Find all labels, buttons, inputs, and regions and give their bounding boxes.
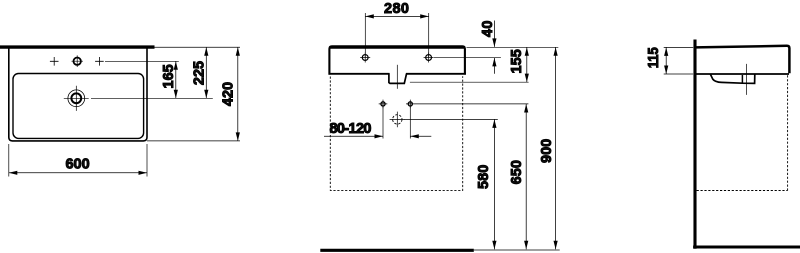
wire: 280 right extension down to faucet hole: [428, 13, 430, 58]
dimension 155: [509, 47, 529, 82]
fixing hole left: [379, 100, 388, 109]
dimension 650: [509, 104, 528, 249]
dimension 900: [539, 47, 558, 249]
wire: 115 bottom extension: [664, 73, 694, 75]
faucet hole (plan): [72, 55, 84, 67]
svg-text:900: 900: [539, 139, 555, 163]
centerline (side drain axis): [746, 64, 748, 95]
dimension 420: [220, 47, 240, 141]
centerline (front drain axis): [396, 65, 398, 89]
dimension 225: [191, 47, 208, 98]
drain hole (plan): [64, 86, 89, 111]
wire: 600 right extension: [146, 144, 148, 177]
wire: drop line from left fixing hole: [382, 107, 384, 139]
wire: extension from right faucet hole to 40 dim: [434, 57, 501, 59]
svg-text:225: 225: [191, 61, 207, 85]
fixing hole right: [406, 100, 415, 109]
dimension 280: [365, 1, 428, 18]
drain stub left edge: [741, 75, 743, 83]
wire: floor thin continuation: [474, 249, 560, 251]
dimension 40: [480, 21, 497, 74]
drain pipe symbol (dashed circle): [390, 112, 405, 128]
wire: 600 left extension: [8, 144, 10, 177]
wire: drop line from right fixing hole: [409, 107, 411, 139]
wire: 280 left extension down to faucet hole: [364, 13, 366, 58]
svg-text:650: 650: [509, 160, 525, 184]
wire: 115 top extension: [664, 46, 694, 48]
basin top edge (thick): [329, 46, 465, 49]
wire: extension from right fixing hole to 650 dim: [415, 103, 529, 105]
basin inner bowl rim: [13, 74, 144, 139]
node: right cross mark: [95, 57, 104, 66]
svg-text:580: 580: [476, 165, 492, 189]
dimension 580: [476, 119, 496, 249]
faucet hole left (front): [360, 53, 370, 63]
svg-text:80-120: 80-120: [330, 121, 372, 137]
basin profile top/right: [696, 46, 790, 73]
svg-text:280: 280: [384, 1, 409, 17]
svg-text:600: 600: [65, 157, 89, 173]
basin bottom edge left: [329, 73, 390, 75]
basin bottom edge right: [406, 73, 466, 75]
wire: extension from drain pipe to 580 dim: [405, 118, 498, 120]
svg-text:40: 40: [480, 21, 496, 38]
dimension 165: [161, 61, 178, 98]
dimension 600: [9, 157, 147, 175]
basin body (front): [329, 46, 465, 74]
bowl underside profile: [710, 74, 755, 83]
floor line (thick): [693, 246, 800, 249]
wire: extension from outlet bottom to 155 dim: [410, 81, 529, 83]
wall line (vertical, thick): [693, 40, 696, 249]
basin profile bottom edge: [696, 73, 789, 75]
faucet hole right (front): [424, 53, 434, 63]
basin outer outline: [9, 47, 147, 141]
drain outlet (front): [389, 73, 407, 83]
dimension 115: [646, 47, 668, 74]
svg-text:165: 165: [161, 64, 177, 88]
wire: top extension line to 225/420 dims: [154, 46, 240, 48]
dimension 80-120: [324, 121, 431, 138]
dashed furniture box (front): [330, 76, 462, 190]
svg-text:155: 155: [509, 49, 525, 73]
wall line (top, thick): [0, 45, 155, 48]
node: left cross mark: [50, 57, 59, 66]
svg-text:115: 115: [646, 47, 662, 68]
svg-text:420: 420: [220, 82, 236, 106]
wire: extension from basin top to 900 dim: [467, 46, 559, 48]
wire: bottom extension to 420 dim: [147, 140, 240, 142]
wire: extension from drain to 165/225 dims: [91, 97, 213, 99]
floor line (thick): [320, 249, 474, 252]
wire: extension from right cross to 165 dim: [105, 60, 179, 62]
dashed furniture box (side): [697, 75, 788, 190]
